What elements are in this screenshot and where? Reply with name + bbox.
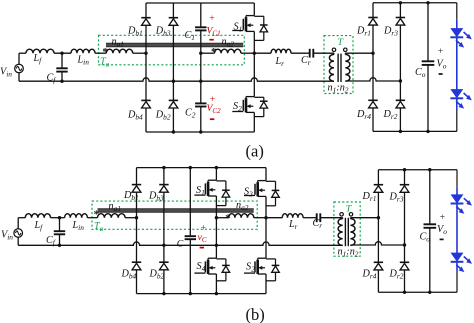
svg-text:(b): (b) <box>246 305 265 323</box>
svg-text:*: * <box>211 46 217 58</box>
svg-text:+: + <box>209 13 215 24</box>
svg-text:*: * <box>94 208 100 220</box>
svg-text:C: C <box>177 238 184 249</box>
svg-text:+: + <box>440 213 445 223</box>
svg-text:(a): (a) <box>246 141 264 160</box>
svg-text:+: + <box>438 47 443 57</box>
svg-text:*: * <box>102 46 108 58</box>
svg-text:*: * <box>225 213 231 225</box>
